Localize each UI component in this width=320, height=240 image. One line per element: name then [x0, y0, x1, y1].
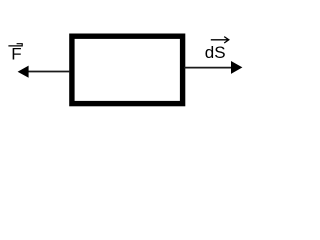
wire: dS arrow shaft	[184, 67, 232, 69]
svg-text:F: F	[11, 44, 21, 63]
vector arrow over F	[8, 44, 22, 46]
vector arrow over dS	[211, 37, 229, 43]
dS arrowhead	[231, 61, 242, 74]
box (surface element)	[72, 36, 183, 103]
wire: F arrow shaft	[27, 71, 70, 73]
F arrowhead	[18, 66, 29, 78]
svg-text:dS: dS	[205, 43, 226, 62]
